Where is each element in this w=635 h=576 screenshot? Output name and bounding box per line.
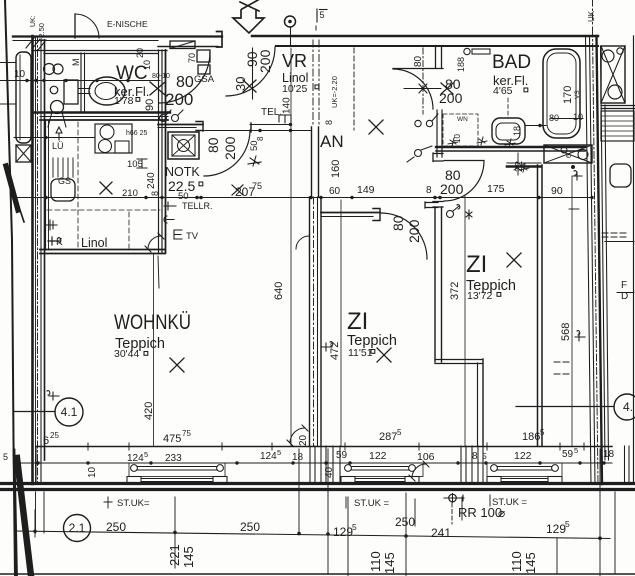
node hall jamb lower xyxy=(433,202,443,208)
wire left facade line xyxy=(5,0,15,576)
node left crossed box xyxy=(16,145,31,162)
svg-text:h66 25: h66 25 xyxy=(126,130,148,137)
wall WC/kitchen band xyxy=(33,111,171,113)
svg-text:Linol: Linol xyxy=(81,236,107,250)
svg-text:175: 175 xyxy=(487,183,505,195)
wall NOTK top xyxy=(158,124,203,126)
wire dim line y197 xyxy=(14,197,592,199)
wire bottom dim line xyxy=(14,462,612,464)
svg-text:30'44: 30'44 xyxy=(114,348,140,360)
wire VR floor line xyxy=(204,130,311,132)
node dim 105 bracket xyxy=(137,159,147,168)
svg-text:80: 80 xyxy=(176,74,194,91)
svg-text:250: 250 xyxy=(395,515,415,529)
svg-text:188: 188 xyxy=(456,57,466,72)
svg-text:18: 18 xyxy=(512,126,522,136)
node top niche rect diagonal xyxy=(170,41,195,49)
svg-text:640: 640 xyxy=(273,282,285,300)
svg-text:25: 25 xyxy=(50,431,59,440)
door ZI1 arc xyxy=(381,213,427,259)
svg-text:5: 5 xyxy=(574,446,578,455)
node X mark WOHNKU xyxy=(170,358,184,372)
svg-text:200: 200 xyxy=(406,219,422,243)
node tap symbol ZI1 xyxy=(322,342,333,351)
door AN arc xyxy=(393,69,433,109)
svg-text:129: 129 xyxy=(333,525,353,539)
svg-text:AN: AN xyxy=(320,132,344,151)
door VR-WOHNKU swing mark xyxy=(296,236,309,249)
svg-text:60: 60 xyxy=(566,150,573,158)
wire BAD door dashdot xyxy=(422,48,424,114)
node window ZI1 xyxy=(340,463,423,477)
svg-text:50: 50 xyxy=(249,140,260,151)
svg-text:20: 20 xyxy=(298,434,309,446)
wall ZI2 jog vertical xyxy=(477,363,479,446)
svg-text:240: 240 xyxy=(146,172,157,189)
svg-text:4'65: 4'65 xyxy=(493,85,513,97)
node GS dishwasher body xyxy=(51,179,75,201)
wire bottom-right verticals xyxy=(556,538,558,574)
svg-text:80: 80 xyxy=(413,55,424,67)
svg-text:20: 20 xyxy=(135,48,145,58)
svg-text:75: 75 xyxy=(252,181,262,191)
node top small boxes xyxy=(197,50,210,62)
svg-text:BAD: BAD xyxy=(492,52,531,73)
node right counter lines xyxy=(601,105,635,107)
node BAD bottom jamb left xyxy=(433,153,443,162)
wall ZI2 right band xyxy=(537,165,539,446)
node tap symbol right xyxy=(575,331,585,341)
wire left heavy streak bottom xyxy=(17,458,31,576)
wall WC inner partition xyxy=(80,53,82,112)
svg-text:UK: UK xyxy=(587,10,596,22)
node right sink xyxy=(610,164,631,187)
svg-text:5: 5 xyxy=(352,522,357,532)
wire dim 80-10 tub leader xyxy=(551,118,583,120)
svg-text:110: 110 xyxy=(368,551,383,572)
svg-text:250: 250 xyxy=(106,520,126,534)
node top-left wall hatch xyxy=(26,38,46,50)
node X mark 207 xyxy=(232,185,243,195)
svg-text:200: 200 xyxy=(439,90,463,106)
wire left margin slab lines xyxy=(0,62,16,64)
svg-text:60: 60 xyxy=(329,186,341,197)
svg-text:TEL.: TEL. xyxy=(261,107,282,118)
node BAD washbasin xyxy=(492,118,525,144)
svg-text:145: 145 xyxy=(382,552,397,574)
svg-text:ZI: ZI xyxy=(466,251,487,278)
svg-text:129: 129 xyxy=(546,522,566,536)
svg-text:UK=-2.20: UK=-2.20 xyxy=(330,76,339,108)
svg-text:10: 10 xyxy=(573,112,583,122)
door WC arc xyxy=(159,52,210,103)
node kitchen door arc xyxy=(148,236,161,249)
wire kitchen wall stub below xyxy=(158,256,159,288)
svg-text:+2.50: +2.50 xyxy=(37,23,46,42)
svg-text:59: 59 xyxy=(336,450,348,461)
svg-text:10: 10 xyxy=(87,466,98,478)
node circle 4.1 xyxy=(55,398,83,426)
node circles NOTK top xyxy=(160,115,167,122)
svg-text:RR 100: RR 100 xyxy=(458,505,502,520)
wire left heavy streak mid xyxy=(6,166,18,210)
svg-text:5: 5 xyxy=(277,448,281,457)
svg-text:221: 221 xyxy=(167,544,182,566)
wall BAD bottom xyxy=(436,146,585,148)
node BAD wall circle bar xyxy=(464,48,470,54)
svg-text:5: 5 xyxy=(144,450,148,459)
svg-text:233: 233 xyxy=(165,453,182,464)
wall bottom window band inner line xyxy=(36,446,612,448)
wire bottom witness lines xyxy=(174,497,176,568)
node X mark ZI1 xyxy=(377,348,391,362)
wall WOHNKU-ZI1 band xyxy=(309,197,311,446)
svg-text:5: 5 xyxy=(3,452,8,462)
node X mark AN xyxy=(369,120,383,134)
labels extra3 xyxy=(256,136,265,141)
wire dim witness 420 xyxy=(153,253,155,446)
wall window piers xyxy=(310,446,340,483)
svg-text:5: 5 xyxy=(320,10,325,20)
svg-text:NOTK: NOTK xyxy=(165,165,200,179)
svg-text:4.: 4. xyxy=(623,400,633,414)
svg-text:70: 70 xyxy=(187,53,197,63)
node TV bracket xyxy=(174,230,182,239)
wall WC top xyxy=(33,50,168,52)
svg-text:145: 145 xyxy=(523,552,538,574)
node switch hall xyxy=(415,150,422,157)
wire dim witness 472 xyxy=(340,200,342,446)
svg-text:VS: VS xyxy=(574,90,581,99)
node dim 22 tick xyxy=(514,153,524,175)
wire dim witness 568 xyxy=(571,176,573,446)
node X mark ZI2 xyxy=(507,253,521,267)
svg-text:90: 90 xyxy=(551,185,563,197)
svg-text:420: 420 xyxy=(143,402,155,420)
wall AN top line xyxy=(393,68,443,70)
svg-text:475: 475 xyxy=(163,433,181,445)
node circle 4x right xyxy=(614,394,635,420)
wire dim line y80 xyxy=(0,80,160,82)
node right crossed box xyxy=(601,46,625,103)
wall right band xyxy=(586,36,592,484)
svg-text:18: 18 xyxy=(292,452,304,463)
node crosses BAD wall xyxy=(448,138,458,146)
node kitchen sink unit xyxy=(95,124,132,153)
door ZI2 leaf and arc xyxy=(444,160,484,162)
svg-text:80: 80 xyxy=(205,137,221,153)
svg-text:372: 372 xyxy=(449,282,461,300)
svg-text:287: 287 xyxy=(379,431,397,443)
svg-text:10: 10 xyxy=(14,69,26,80)
svg-text:241: 241 xyxy=(431,526,451,540)
node WC toilet bowl xyxy=(89,77,125,105)
node entrance arrow xyxy=(233,10,264,33)
svg-text:122: 122 xyxy=(369,450,387,462)
svg-text:170: 170 xyxy=(562,86,574,104)
wire right edge xyxy=(633,36,635,484)
labels extra4 xyxy=(71,59,81,67)
wire dim witness 640 xyxy=(290,48,292,446)
wall top outer right part xyxy=(252,35,598,37)
node left bracket symbol xyxy=(46,220,57,230)
svg-text:6: 6 xyxy=(43,435,49,447)
svg-text:105: 105 xyxy=(127,159,143,170)
svg-text:75: 75 xyxy=(182,429,191,438)
node WC tank-bowl link xyxy=(78,89,90,94)
node RR100 circle cross xyxy=(449,494,457,502)
svg-text:UK:: UK: xyxy=(30,15,37,27)
node right hatched box xyxy=(601,111,634,141)
svg-text:200: 200 xyxy=(222,136,238,160)
node BAD bathtub xyxy=(543,49,580,138)
node tap symbol 41 xyxy=(47,391,59,400)
svg-text:8: 8 xyxy=(324,120,334,125)
svg-text:90: 90 xyxy=(144,99,156,111)
svg-text:GSA: GSA xyxy=(194,74,215,85)
wall bottom heavy band xyxy=(0,482,635,485)
wall kitchen left xyxy=(45,120,47,250)
wire shaft dashes xyxy=(554,362,572,374)
wire AN dashed line xyxy=(353,48,355,130)
wire left witness bottom xyxy=(35,492,37,533)
svg-text:WOHNKÜ: WOHNKÜ xyxy=(114,311,191,334)
area squares xyxy=(315,85,319,89)
svg-text:472: 472 xyxy=(329,342,341,360)
svg-text:WN: WN xyxy=(457,116,468,123)
svg-text:ZI: ZI xyxy=(347,308,368,335)
wire kitchen dashed xyxy=(77,122,79,248)
svg-text:5: 5 xyxy=(397,428,402,437)
node ZI1 door jamb left xyxy=(373,209,380,221)
svg-text:124: 124 xyxy=(127,453,144,464)
node tick marks y446 xyxy=(88,443,584,450)
wire kitchen dim line y137 xyxy=(14,137,95,139)
node NOTK stove xyxy=(168,132,199,159)
wall VR-BAD vertical upper xyxy=(435,46,437,68)
node ZI2 door switch xyxy=(185,536,187,538)
node switch ZI2 xyxy=(447,211,454,218)
wire bottom dim dots y463 xyxy=(36,461,605,464)
node NOTK jamb xyxy=(196,122,203,132)
svg-text:80-10: 80-10 xyxy=(152,73,170,80)
svg-text:⌀: ⌀ xyxy=(498,506,505,520)
node hook symbol xyxy=(164,216,174,223)
svg-text:ST.UK =: ST.UK = xyxy=(354,498,390,509)
node top wall bracket xyxy=(217,32,223,48)
wall shaft stub xyxy=(507,162,541,164)
svg-text:124: 124 xyxy=(260,451,277,462)
svg-text:8: 8 xyxy=(256,136,265,141)
door ZI1 window swing mark xyxy=(412,464,426,478)
wire bottom dim line y532 xyxy=(14,531,610,539)
node WN dashed niche xyxy=(443,114,478,146)
door top-left arc xyxy=(74,14,76,38)
node BAD washing machine xyxy=(544,145,592,163)
wire top-right UK dashdot xyxy=(592,0,594,30)
svg-text:59: 59 xyxy=(562,449,574,460)
node X mark BAD door xyxy=(441,83,453,94)
door entrance VR arc xyxy=(226,47,275,96)
svg-text:4.1: 4.1 xyxy=(61,405,78,419)
svg-text:TELLR.: TELLR. xyxy=(182,201,213,211)
wire dim witness 210 xyxy=(464,196,466,446)
svg-text:8: 8 xyxy=(150,191,160,196)
svg-text:ST.UK=: ST.UK= xyxy=(117,498,150,509)
node TEL bracket xyxy=(164,202,176,210)
svg-text:10'25: 10'25 xyxy=(282,83,308,95)
node grid mark 5 top xyxy=(316,9,318,22)
svg-text:160: 160 xyxy=(330,160,342,178)
svg-text:250: 250 xyxy=(240,520,260,534)
svg-text:30: 30 xyxy=(233,77,248,91)
node WC basin circles xyxy=(44,64,55,75)
svg-text:40: 40 xyxy=(324,466,335,478)
wall kitchen bottom xyxy=(40,249,165,251)
svg-text:200: 200 xyxy=(165,90,193,109)
wire right column line xyxy=(605,241,634,243)
svg-text:145: 145 xyxy=(181,546,196,568)
svg-text:VR: VR xyxy=(282,51,307,71)
svg-text:149: 149 xyxy=(357,184,375,196)
svg-text:10: 10 xyxy=(142,60,152,70)
svg-text:80: 80 xyxy=(549,113,559,123)
node WC toilet tank xyxy=(64,80,78,104)
svg-text:568: 568 xyxy=(560,323,572,341)
wall ZI1 top xyxy=(321,212,380,214)
svg-text:140: 140 xyxy=(282,97,293,114)
node left radiator xyxy=(16,52,31,143)
node window reveal marks xyxy=(127,477,141,485)
node GS dishwasher hatch xyxy=(53,158,73,177)
svg-text:TV: TV xyxy=(186,231,199,242)
node handles AN door xyxy=(415,120,421,126)
node X mark kitchen xyxy=(100,182,112,194)
node window WOHNKU xyxy=(129,463,225,477)
node tap below machine xyxy=(573,171,582,180)
svg-text:200: 200 xyxy=(257,49,273,73)
svg-text:110: 110 xyxy=(509,551,524,572)
svg-text:K: K xyxy=(56,237,63,248)
node crosses NOTK door xyxy=(248,156,261,166)
wire BAD leader xyxy=(525,125,546,127)
wall ZI1-ZI2 band upper xyxy=(434,207,436,362)
svg-text:LÜ: LÜ xyxy=(52,141,64,151)
svg-text:5: 5 xyxy=(482,451,487,461)
node LU triangle xyxy=(56,127,62,140)
svg-text:8: 8 xyxy=(426,185,432,196)
node circle dot symbol xyxy=(285,16,296,27)
svg-text:80: 80 xyxy=(390,215,406,231)
wall left band xyxy=(31,36,34,484)
node circle 2.1 xyxy=(64,515,91,542)
svg-text:1'78: 1'78 xyxy=(114,95,134,107)
svg-text:E-NISCHE: E-NISCHE xyxy=(107,19,148,29)
wire bottom edge line xyxy=(0,573,635,575)
wall ZI2 jog horizontal xyxy=(435,359,483,361)
node ZI1-ZI2 jamb top xyxy=(425,202,438,208)
svg-text:M: M xyxy=(71,59,81,67)
wire right dashes xyxy=(602,233,627,237)
door NOTK arc xyxy=(204,130,250,176)
door WOHNKU balcony mark xyxy=(290,428,305,443)
svg-text:13'72: 13'72 xyxy=(467,290,493,302)
svg-text:200: 200 xyxy=(440,181,464,197)
svg-text:106: 106 xyxy=(417,451,435,463)
svg-text:10: 10 xyxy=(453,134,462,143)
wall top outer xyxy=(13,35,222,37)
node switch kitchen door xyxy=(183,530,185,532)
node window ZI2 xyxy=(487,463,562,477)
node kitchen K tap xyxy=(48,237,61,245)
wall AN-hall vertical xyxy=(436,110,438,157)
svg-text:5: 5 xyxy=(565,519,570,529)
node X mark VR door xyxy=(243,80,256,92)
svg-text:210: 210 xyxy=(122,188,138,199)
svg-text:F: F xyxy=(621,280,627,291)
svg-text:2.1: 2.1 xyxy=(69,521,86,535)
wall WC-NOTK right band xyxy=(158,50,160,253)
svg-text:122: 122 xyxy=(514,450,532,462)
node X mark WC xyxy=(150,82,165,95)
svg-text:8: 8 xyxy=(472,451,478,462)
node dim 140 bracket xyxy=(279,115,291,123)
wire VR dashdot boundary xyxy=(312,40,314,127)
labels extra2 xyxy=(453,134,462,143)
svg-text:GS: GS xyxy=(58,176,71,186)
wire ST.UK ticks xyxy=(104,497,112,508)
wire right column inner line xyxy=(605,105,609,460)
svg-text:11'51: 11'51 xyxy=(348,347,373,359)
